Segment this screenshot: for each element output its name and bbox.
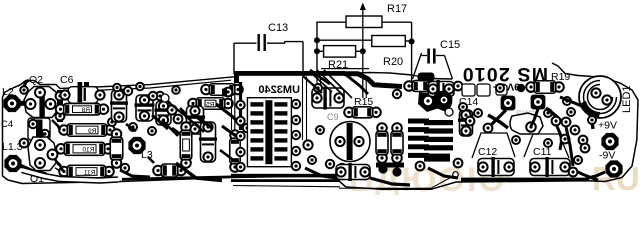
wire C13 right lead down to board (302, 42, 304, 76)
capacitor C8 vertical (187, 106, 204, 134)
pad under C15 (418, 73, 435, 82)
trace rows left link (52, 120, 60, 130)
capacitor C13 leads (234, 42, 257, 44)
transistor Q2 pads (35, 88, 45, 98)
trace right of C7 (172, 128, 184, 139)
svg-text:UM3240: UM3240 (258, 84, 300, 96)
pad left of IC (224, 88, 233, 97)
svg-text:C13: C13 (268, 22, 288, 34)
extra slants mid (168, 102, 204, 132)
LED1 rings (579, 76, 621, 118)
via left of C16 (303, 140, 312, 149)
trace Q1 bottom right (56, 166, 98, 175)
outlined trace down from band (302, 77, 304, 141)
capacitor C4 body (28, 118, 50, 140)
trace under R19 (560, 97, 584, 107)
junction dot left upper (314, 37, 320, 43)
electrolytic C16 big circle (330, 122, 370, 162)
IC left pad circles (236, 101, 244, 109)
pads mid lower (174, 115, 183, 124)
capacitor C13 plates (258, 34, 260, 51)
svg-text:R5: R5 (206, 101, 215, 108)
svg-text:C15: C15 (440, 39, 460, 51)
svg-text:LED1: LED1 (621, 85, 633, 113)
trace right bottom (590, 111, 593, 129)
black pads bottom center (378, 164, 387, 173)
vertical resistor R3 (112, 129, 122, 139)
transistor Q2 body (24, 87, 58, 118)
black blob under R16 (418, 92, 439, 112)
slant traces center top (310, 70, 330, 84)
IC UM3240 footprint outline (247, 98, 291, 167)
capacitor C6 body (68, 87, 98, 104)
wire C13 left lead down to board (233, 43, 235, 74)
label LED1 vertical (621, 85, 633, 113)
capacitor C12 (478, 159, 514, 176)
capacitor C9 horizontal (312, 88, 344, 108)
pad -9V (605, 160, 622, 177)
resistor R5 small (188, 99, 198, 109)
transistor Q1 body (28, 137, 56, 171)
svg-text:R20: R20 (383, 56, 403, 68)
wire R20 right lead (405, 40, 411, 42)
connector bars col2 (424, 120, 453, 125)
resistor R21 body (324, 46, 356, 58)
wire R21 left lead (317, 50, 324, 52)
board outline top left segments (26, 77, 234, 89)
pads mid-left extra (129, 123, 137, 131)
trace under L3 (120, 170, 150, 177)
pads above L3 (124, 87, 132, 95)
via circle (161, 94, 169, 102)
trace under C11 right (570, 168, 592, 178)
IC right pad circles (292, 100, 300, 108)
capacitor C3 vertical (112, 90, 127, 122)
diagonal trace bundle (303, 76, 322, 93)
trace Q3 down (489, 110, 506, 127)
potentiometer R17 wiper arrow (362, 6, 364, 72)
resistor R15 (344, 108, 354, 118)
bottom thick trace right (461, 178, 589, 182)
trace slant mid (194, 115, 212, 128)
pads near C16 (326, 160, 334, 168)
left bottom outlined trace (22, 170, 118, 181)
board outline top middle segments (345, 73, 452, 80)
svg-text:C4: C4 (1, 119, 13, 130)
resistor R8 row0 (56, 104, 66, 114)
resistor R11 row3 (59, 167, 69, 177)
thick trace top center (234, 71, 345, 76)
capacitor C5 vertical (136, 95, 153, 121)
trapezoid over C12 (472, 133, 515, 158)
black bar right of Q2 (57, 90, 63, 122)
wire R20 left lead (317, 39, 372, 41)
small comps above Q3 Q4 (462, 84, 475, 96)
wire R17 top left (316, 21, 346, 23)
svg-text:C12: C12 (478, 146, 497, 158)
pads right column (562, 118, 571, 127)
wire R21 right lead (356, 50, 363, 52)
pads left mid (20, 139, 29, 148)
pad Q4 (531, 95, 546, 110)
svg-text:R17: R17 (387, 3, 407, 15)
long vertical trace x240 (239, 82, 242, 130)
svg-text:Q2: Q2 (29, 74, 43, 86)
pad left of 9VG (454, 82, 463, 91)
junction dot center (360, 48, 366, 54)
vertical resistor mid2 (230, 130, 240, 140)
capacitor C7 vertical (156, 101, 171, 125)
trace C13 wire into board (234, 78, 236, 130)
pad L1.3 (4, 155, 21, 172)
capacitor C11 (530, 159, 570, 176)
trace C6 top (84, 82, 89, 87)
svg-text:C6: C6 (60, 74, 74, 86)
resistor R19 (526, 82, 536, 92)
line under R21 box (321, 68, 369, 70)
capacitor C14 small (428, 82, 454, 97)
label 9VG mirrored (484, 81, 520, 93)
svg-text:R11: R11 (84, 169, 96, 176)
capacitor C17 horizontal (336, 165, 370, 180)
trace IC to C17 (305, 168, 336, 178)
resistor R10 row2 (56, 144, 66, 154)
capacitor C15 leads and pad outline (422, 55, 428, 57)
trace pot left into board (316, 70, 318, 96)
resistor R20 body (372, 36, 406, 47)
IC UM3240 pin bars (250, 102, 263, 106)
svg-text:-9V: -9V (599, 150, 615, 162)
IC UM3240 center bar (265, 100, 272, 164)
annotation pointer line (339, 177, 453, 189)
dark blob below C14 (433, 90, 452, 112)
vertical resistor R14 (392, 123, 402, 133)
trace left into section (488, 115, 508, 128)
bottom second line center (233, 186, 340, 187)
trace to C11 trap (556, 124, 562, 150)
pad +9V (601, 133, 618, 150)
transistor Q2 bar (39, 90, 44, 130)
pads ms section (466, 117, 475, 126)
transistor blob below (510, 113, 543, 134)
board outline left and bottom (3, 63, 639, 189)
svg-text:+9V: +9V (598, 120, 617, 132)
vertical resistor mid1 (181, 122, 191, 132)
trace R17 wire into board (411, 84, 413, 88)
svg-text:C11: C11 (533, 146, 552, 158)
wire pot left vertical (316, 22, 318, 70)
svg-text:R8: R8 (81, 107, 90, 114)
trace col2 bottom (428, 168, 458, 178)
transistor Q1 pads (35, 140, 45, 150)
trace Q2 top elbow (24, 81, 29, 88)
ring pad near R16 (393, 90, 401, 98)
junction dot left lower (314, 48, 320, 54)
trace IC bottom (231, 174, 336, 178)
capacitor C10 vertical (460, 110, 473, 136)
junction dot right (409, 39, 415, 45)
svg-text:R10: R10 (82, 147, 94, 154)
label UM3240 mirrored (258, 84, 300, 96)
trace right of Q4 (546, 108, 566, 126)
pad L2 (3, 95, 20, 112)
pad L3 (128, 137, 145, 154)
pads right extra (588, 116, 596, 124)
trace L2 to Q2 (19, 101, 27, 106)
trace L1.3 right (21, 166, 45, 174)
potentiometer R17 body (346, 16, 382, 28)
wire R17 right to junction (382, 21, 412, 23)
pad Q3 (501, 96, 516, 111)
label MS 2010 mirrored rotated (462, 63, 548, 85)
resistor R9 row1 (59, 125, 69, 135)
capacitor C2 vertical (201, 122, 216, 162)
resistor R6 small (201, 85, 211, 95)
svg-text:R9: R9 (88, 128, 97, 135)
connector bars right (408, 119, 429, 124)
pads mid top (149, 92, 157, 100)
stepped thick trace top right (344, 74, 402, 87)
resistor R16 (404, 81, 414, 91)
svg-text:C9: C9 (327, 112, 339, 122)
pads col2 (454, 159, 463, 168)
trapezoid over C11 (524, 134, 569, 158)
pads ms extra (459, 103, 467, 111)
capacitor C15 plates (427, 49, 430, 64)
transistor Q1 top dot (38, 131, 45, 138)
bottom band mid (122, 177, 232, 179)
trace under C3 (126, 124, 136, 131)
resistor R12 row (153, 166, 163, 176)
vertical resistor R13 (377, 123, 387, 133)
left extra pads (20, 86, 28, 94)
